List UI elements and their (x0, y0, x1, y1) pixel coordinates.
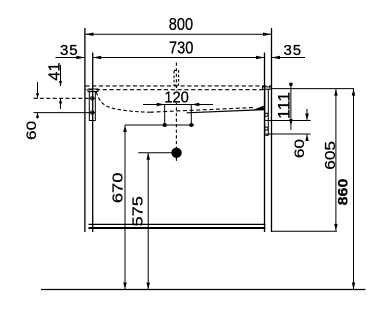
dimension 860 top up arrow (352, 89, 356, 96)
dimension 575 bottom down arrow (146, 283, 150, 290)
right ref line H2 (upper) (266, 120, 311, 122)
right bracket hole lower (265, 127, 268, 130)
dimension 860 line (353, 89, 355, 290)
right top reference line H1 (272, 88, 355, 90)
dimension 730 right arrow (256, 56, 265, 60)
right bracket hole upper (265, 113, 268, 116)
basin underside dashed curve (left) (96, 92, 150, 112)
dimension 120 line (143, 104, 213, 106)
basin rim lower dashed line (85, 89, 264, 91)
dimension 800 line (85, 33, 272, 35)
dimension 35 left line (56, 57, 85, 59)
basin rim upper dashed line (85, 85, 271, 87)
dimension 35 right arrow (272, 56, 281, 60)
svg-text:35: 35 (60, 42, 78, 59)
dimension 730 left arrow (93, 56, 102, 60)
svg-text:35: 35 (284, 42, 302, 59)
dimension 670 top up arrow (123, 125, 127, 132)
dimension 60 right upper leg + down arrow (306, 109, 308, 121)
drain hole filled circle (171, 148, 181, 158)
cabinet right side panel outer edge + extension line (271, 28, 273, 232)
svg-text:60: 60 (24, 121, 39, 140)
svg-text:860: 860 (335, 179, 351, 206)
basin underside dashed line (right) (150, 108, 254, 113)
dimension 41 upper leg + down arrow (60, 65, 62, 86)
dimension 120 right arrow (pointing left) (191, 103, 199, 107)
dimension 35 left arrow (76, 56, 85, 60)
faucet hole dashed rectangle (174, 70, 179, 85)
text 120 (with white backing) (161, 91, 193, 103)
dimension 800 left arrow (85, 33, 94, 37)
left mounting bracket body (89, 92, 95, 121)
dimension 111 line with top dot (290, 84, 292, 125)
right ref line H3 (lower) (266, 133, 311, 135)
dimension 670 bottom down arrow (123, 283, 127, 290)
dimension 60 left lower leg + up arrow (37, 113, 39, 119)
dimension 800 right arrow (263, 33, 272, 37)
dimension 575 top up arrow (146, 153, 150, 160)
fixing hole right leg (190, 105, 192, 126)
dimension 60 left upper leg + down arrow (37, 82, 39, 98)
dimension 575 line (147, 153, 149, 290)
cabinet left side panel outer edge + extension line (84, 28, 86, 232)
cabinet bottom shelf bottom line (89, 227, 266, 229)
svg-text:605: 605 (323, 141, 339, 170)
text 800 (169, 15, 194, 58)
right mounting bracket top plate (263, 87, 271, 89)
left bracket hole lower (91, 111, 94, 114)
svg-text:800: 800 (169, 15, 193, 35)
svg-text:120: 120 (164, 89, 189, 107)
dimension 605 bottom down arrow (334, 224, 338, 231)
basin underside end wedge (253, 106, 264, 111)
dimension 120 left arrow (pointing right) (157, 103, 165, 107)
cabinet bottom right extension line H4 (272, 230, 337, 232)
left ref line lower (through lower bracket hole) (34, 112, 96, 114)
fixing hole left leg (164, 105, 166, 126)
svg-text:730: 730 (169, 38, 193, 58)
fixing holes horizontal line (125, 124, 194, 126)
basin front visible solid line (187, 110, 265, 113)
svg-text:575: 575 (130, 196, 146, 227)
dimension 41 lower leg + up arrow (60, 98, 62, 109)
fixing hole right dot (189, 123, 193, 127)
left ref line upper (dashed through upper bracket hole) (34, 97, 96, 99)
right mounting bracket body (265, 89, 269, 135)
floor line (41, 289, 366, 291)
dimension 60 right lower leg + up arrow (306, 134, 308, 141)
dimension 35 right line (272, 57, 306, 59)
left mounting bracket top plate (88, 89, 98, 92)
svg-text:60: 60 (292, 139, 307, 158)
left bracket hole upper (91, 97, 94, 100)
cabinet bottom shelf top line (89, 223, 266, 225)
svg-text:670: 670 (110, 173, 126, 204)
svg-text:111: 111 (275, 92, 293, 119)
drain reference horizontal line (138, 152, 176, 154)
dimension 730 line (93, 57, 265, 59)
dimension 670 line (124, 125, 126, 290)
fixing hole left dot (163, 123, 167, 127)
cabinet right side panel inner edge + extension line (264, 53, 266, 233)
dimension 111 bottom down arrow + stub (289, 119, 293, 126)
dimension 605 top up arrow (334, 89, 338, 96)
faucet dashed centerline (vertical) (175, 63, 177, 164)
svg-text:41: 41 (46, 62, 64, 80)
dimension 860 bottom down arrow (352, 283, 356, 290)
dimension 605 line (335, 89, 337, 231)
cabinet left side panel inner edge + extension line (92, 53, 94, 233)
